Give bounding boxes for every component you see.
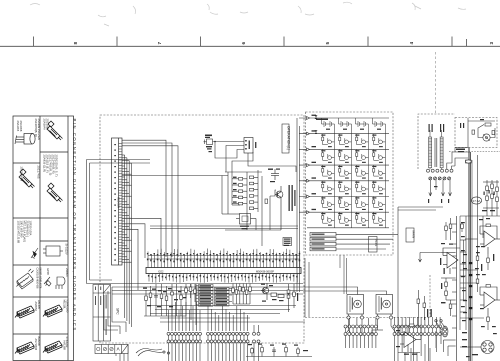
bottom rail labels [248, 344, 308, 352]
connector CN501 body [112, 138, 123, 265]
wires to bottom connectors [169, 302, 248, 331]
wire harness CN501 to logic [122, 155, 161, 327]
transistor Q103 [275, 186, 283, 230]
bottom right tails [398, 344, 430, 361]
vertical rail right [460, 155, 500, 283]
switch S601 [435, 320, 447, 348]
CN605 tails [395, 336, 437, 361]
svg-text:NJM4558D: NJM4558D [65, 300, 69, 313]
bottom left bend wires [104, 287, 126, 334]
svg-text:4: 4 [409, 42, 414, 45]
motor connector rail [305, 275, 430, 318]
FL tube boxes FL01-FL04 [310, 233, 336, 251]
op-amp IC601 [400, 328, 421, 352]
resistor group R215 [185, 284, 197, 302]
legend cell L1 part numbers [34, 119, 41, 141]
svg-text:2SC2458: 2SC2458 [19, 121, 23, 132]
svg-text:IC02: IC02 [158, 269, 164, 273]
resistor array RA102 [250, 176, 259, 210]
jack J101 [204, 139, 213, 145]
left cluster labels [143, 288, 187, 308]
transformer T601 primary winding [429, 130, 432, 169]
strip mid components [441, 278, 456, 316]
ruler tick 3 [200, 37, 202, 47]
motor terminals [347, 314, 393, 319]
transformer connector row 2 [429, 177, 451, 180]
indicator oval power [442, 326, 448, 337]
svg-text:1SR35-100A: 1SR35-100A [29, 221, 33, 236]
svg-text:7: 7 [157, 42, 162, 45]
connector pair CN603 [253, 325, 261, 361]
stack feed wires [196, 286, 232, 305]
wire jack to U102 [213, 141, 254, 172]
svg-text:8: 8 [73, 42, 78, 45]
strip branch resistors [441, 218, 463, 253]
connector CN602 [207, 332, 250, 361]
left cluster bottom wires [144, 284, 196, 325]
connector CN501 pin ticks [119, 144, 122, 262]
motor ground stubs [346, 319, 396, 336]
IC U102 pin dots [245, 140, 250, 150]
headphone motor bottom right [475, 341, 494, 354]
wire cluster feed [122, 172, 262, 214]
AC plug M [483, 134, 490, 141]
ruler tick 1 [33, 37, 35, 47]
legend cell L6: SIP IC package [15, 342, 34, 354]
bottom rail resistors [246, 345, 312, 357]
IC703 parts [476, 279, 490, 330]
AC wires [468, 118, 495, 148]
sub circuit K101 labels [240, 226, 249, 230]
legend cell R2: transistor package with list [47, 183, 63, 202]
legend cell R5: SIP IC package [43, 305, 62, 317]
FL tube box labels [312, 234, 325, 250]
PL01 lamp box [369, 237, 378, 253]
fold mark dashed line [435, 52, 437, 114]
operation board label box [282, 124, 290, 153]
power trunk vertical [469, 148, 472, 361]
legend cell L3: diode type list [17, 221, 33, 244]
transformer core [435, 138, 437, 167]
capacitor C105 [271, 169, 279, 180]
connector CN501 pin numbers [114, 144, 116, 261]
svg-text:2SC380ATM: 2SC380ATM [20, 167, 24, 182]
IC M50436-560SP body [146, 268, 301, 274]
far right rail [464, 216, 467, 330]
transformer connector row 1 [427, 169, 454, 172]
motor feed wires [160, 287, 387, 322]
motor M601 box [347, 295, 364, 315]
IC702 parts [476, 224, 490, 270]
legend cell R3: IC rect with leads [43, 246, 63, 256]
ruler tick extra [466, 39, 468, 46]
legend: pin connection diagram box [13, 116, 74, 361]
legend cell L3: diode symbol [31, 248, 38, 259]
svg-text:SPC: SPC [116, 308, 120, 315]
strip lower wires [444, 340, 456, 356]
legend cell L4: DIP IC package [17, 269, 34, 289]
resistor array RA101 labels [233, 177, 237, 203]
L/W label [441, 283, 446, 303]
svg-text:560SP HD614076: 560SP HD614076 [38, 268, 42, 289]
wire bus from CN501 top pins [122, 140, 178, 257]
transformer jumper wires [447, 152, 470, 169]
matrix key cells [322, 118, 386, 223]
right mid connector wires [419, 239, 485, 347]
svg-text:SI-3122V: SI-3122V [65, 244, 69, 255]
block bottom tails [116, 344, 128, 361]
wire U102 down [248, 153, 296, 172]
film edge ruler line [0, 37, 500, 47]
rectifier stack [483, 180, 499, 216]
svg-text:6: 6 [241, 42, 246, 45]
ruler tick 4 [283, 37, 285, 47]
ruler tick 6 [451, 37, 453, 47]
cluster tie wires [225, 190, 281, 246]
transformer leads down with arrows [429, 180, 452, 196]
legend cell L5: SIP IC package [15, 306, 34, 318]
matrix column drains [334, 124, 385, 228]
svg-text:2SC1685: 2SC1685 [46, 119, 50, 131]
trunk dark joints [469, 262, 473, 320]
cap C201 [154, 284, 158, 316]
svg-text:17.6A: 17.6A [473, 199, 481, 203]
key label stack A text [200, 285, 212, 305]
svg-text:HA1368: HA1368 [63, 341, 67, 351]
svg-text:2SB607: 2SB607 [65, 268, 69, 278]
svg-text:3: 3 [489, 42, 494, 45]
ruler frame numbers [73, 42, 494, 45]
fuse F601 [466, 160, 472, 163]
svg-text:2SC1740S: 2SC1740S [37, 166, 41, 179]
xtal X202 ceramic [271, 284, 295, 312]
svg-text:PL01: PL01 [374, 239, 378, 247]
main board dashed outline [100, 115, 304, 343]
capacitor C105 labels [268, 169, 280, 183]
connector CN604 [344, 325, 377, 348]
middle cluster verticals [228, 170, 262, 230]
legend cell R1: transistor screw package [47, 121, 63, 140]
op-amp IC702 [480, 226, 500, 254]
key label stack A [199, 285, 214, 307]
fuse oval 17.6A [471, 197, 481, 204]
diode D201 [145, 286, 152, 316]
resistor array RA101 [232, 178, 247, 205]
strip labels right [479, 218, 494, 271]
IC pin comb top [148, 249, 300, 268]
scan noise marks top margin [30, 2, 466, 26]
jack J101 labels [205, 135, 212, 153]
svg-text:OPERATION(1): OPERATION(1) [286, 126, 290, 150]
rectifier labels [482, 190, 495, 211]
svg-text:AN6552: AN6552 [34, 302, 38, 312]
legend cell L2: transistor angle package 2SC1740 [19, 169, 35, 188]
motor M602 label [381, 298, 382, 310]
svg-text:PIN CONNECTION DIAGRAM OF TRAN: PIN CONNECTION DIAGRAM OF TRANSISTORS, D… [72, 119, 77, 332]
ruler tick 2 [116, 37, 118, 47]
motor M601 label [352, 298, 353, 310]
transistor Q103 label 2SC2320 [289, 185, 296, 211]
resistor R140 [265, 199, 292, 246]
svg-text:MAIN: MAIN [412, 231, 416, 239]
matrix row X markers [315, 115, 318, 134]
mid horizontal rails [150, 306, 296, 319]
strip short stubs [452, 224, 466, 328]
Q201 labels [261, 284, 298, 302]
IC201 label block [284, 239, 291, 247]
AC small caps [472, 123, 495, 135]
AC labels [460, 119, 484, 128]
matrix row rails [299, 118, 389, 228]
FL rail risers [340, 255, 347, 294]
connector CN605 [393, 317, 442, 336]
op-amp IC701 [443, 248, 460, 274]
connector CN601 [167, 332, 202, 361]
op-amp IC703 [480, 287, 500, 315]
svg-text:2SA999 2SC2320: 2SA999 2SC2320 [37, 119, 41, 141]
ribbon cable loop [136, 349, 170, 357]
IC701 labels [440, 243, 453, 274]
legend cell R4: TO-92 and glass diode [44, 277, 65, 289]
live wire label B-1 LIVE [456, 149, 465, 153]
wires exiting left of board [87, 160, 151, 284]
matrix cell labels [321, 129, 383, 226]
under-transformer rails [398, 207, 443, 234]
resistor group RB201 [232, 284, 252, 305]
connector code table [95, 345, 128, 354]
key matrix title [316, 119, 328, 121]
op-amp labels [396, 309, 432, 355]
motor M602 box [376, 295, 393, 315]
far right strip extra labels [461, 222, 497, 357]
svg-text:5: 5 [325, 42, 330, 45]
transformer labels [429, 124, 445, 132]
transformer board dashed outline [418, 114, 497, 169]
svg-text:AN7145M: AN7145M [34, 339, 38, 351]
wires matrix to motor area [305, 234, 398, 361]
transformer T601 secondary winding [440, 130, 443, 169]
IC U102 label [255, 142, 256, 148]
trunk junction to board [455, 148, 468, 153]
bus lines to right blocks [112, 226, 303, 294]
live dashed rail [449, 151, 500, 153]
svg-text:GP08: GP08 [46, 268, 50, 275]
lead labels [428, 186, 449, 203]
key label stack B [215, 288, 230, 307]
bottom right labels [462, 254, 478, 355]
sub circuit block K101 [236, 214, 256, 225]
wiring table text [95, 287, 107, 336]
bus wires left of matrix [297, 118, 300, 292]
op-amp feedback [400, 290, 426, 340]
CN604 heads [349, 318, 376, 325]
resistor R201 [160, 284, 168, 316]
wiring table [93, 285, 111, 342]
svg-text:2SD1225 (R, S, T): 2SD1225 (R, S, T) [55, 155, 59, 177]
svg-text:M50436-560SP: M50436-560SP [256, 269, 274, 273]
key label stack B text [216, 288, 228, 305]
IC pin comb bottom [149, 274, 297, 283]
IC pin numbers top [147, 253, 300, 262]
MAIN label box [406, 228, 414, 242]
connector code table symbols [97, 347, 120, 350]
key matrix board dashed outline [306, 112, 394, 255]
signal trunk double line [457, 216, 461, 361]
legend cell: transistor 2SA TO-92 package [15, 134, 35, 145]
IC U102 body [244, 138, 253, 154]
matrix row source marks [307, 115, 317, 214]
transistor Q201 [261, 283, 269, 300]
legend extra part labels [16, 121, 67, 351]
IC pin numbers bottom [148, 275, 298, 278]
ruler tick 5 [367, 37, 369, 47]
xtal X201 [171, 284, 183, 316]
legend cell R6: SIP IC package [43, 341, 62, 353]
